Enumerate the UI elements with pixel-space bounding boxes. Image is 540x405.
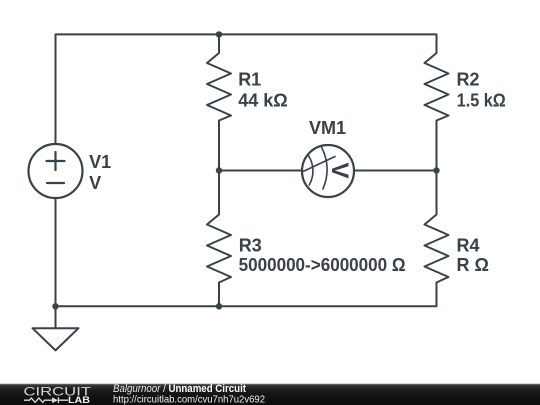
CircuitLab logo circuit doodle: [24, 397, 68, 403]
svg-text:5000000->6000000 Ω: 5000000->6000000 Ω: [239, 255, 406, 275]
resistor R2: [425, 53, 449, 171]
node junction bottom left (ground): [52, 303, 58, 309]
svg-text:V1: V1: [89, 152, 111, 172]
svg-text:R1: R1: [238, 70, 261, 90]
svg-text:44 kΩ: 44 kΩ: [238, 91, 287, 111]
node junction middle left: [216, 167, 222, 173]
svg-text:R4: R4: [457, 236, 480, 256]
svg-text:R Ω: R Ω: [457, 255, 489, 275]
svg-text:R2: R2: [457, 70, 480, 90]
voltage source V1: [29, 144, 83, 198]
node junction bottom middle: [216, 303, 222, 309]
wire middle left (node to VM1): [219, 170, 302, 172]
svg-text:LAB: LAB: [68, 395, 90, 405]
svg-text:V: V: [89, 173, 101, 193]
node junction middle right: [433, 167, 439, 173]
svg-text:http://circuitlab.com/cvu7nh7u: http://circuitlab.com/cvu7nh7u2v692: [113, 393, 265, 405]
svg-text:1.5 kΩ: 1.5 kΩ: [457, 91, 506, 111]
svg-text:R3: R3: [239, 236, 262, 256]
svg-text:V: V: [326, 162, 353, 178]
resistor R4: [425, 171, 449, 283]
wire top rail (left rail up, across top, down to R2): [56, 34, 437, 144]
wire bottom rail (V1 bottom down, across bottom, up to R4): [56, 198, 437, 306]
voltmeter VM1: [302, 145, 354, 197]
ground: [33, 306, 79, 350]
svg-text:VM1: VM1: [309, 118, 346, 138]
VM1 meter V glyph: [326, 162, 353, 178]
resistor R3: [207, 171, 231, 307]
node junction top middle: [216, 31, 222, 37]
wire middle right (VM1 to right branch): [354, 170, 437, 172]
footer bar: [0, 384, 540, 405]
resistor R1: [207, 34, 231, 170]
